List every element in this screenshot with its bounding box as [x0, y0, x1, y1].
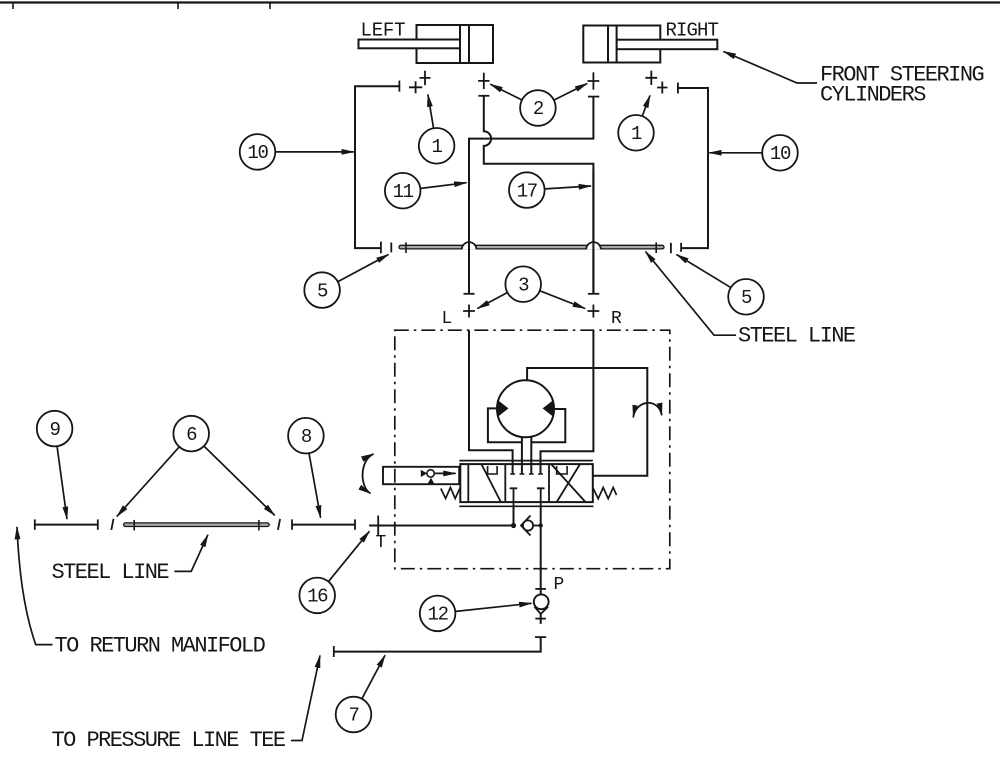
- svg-text:10: 10: [770, 143, 791, 165]
- balloon 6 arrows: [117, 447, 179, 516]
- check valve ball: [523, 520, 533, 530]
- wire: R-port line (hose 11) down and across H1: [469, 97, 593, 294]
- motor top line to right loop: [527, 368, 647, 476]
- balloon 1 right arrow: [642, 96, 650, 116]
- port R cross: [588, 305, 600, 318]
- hose 8 left tick: [291, 519, 293, 529]
- balloon 17 arrow: [545, 186, 591, 189]
- svg-text:5: 5: [317, 280, 328, 302]
- balloon 17: [509, 172, 545, 208]
- svg-text:TO RETURN MANIFOLD: TO RETURN MANIFOLD: [55, 634, 266, 659]
- svg-text:LEFT: LEFT: [361, 19, 406, 41]
- pilot arrow: [435, 472, 456, 474]
- motor circle: [497, 380, 554, 437]
- steel line lower: tube: [124, 523, 270, 527]
- check valve seat: [521, 516, 531, 536]
- port P cross: [535, 588, 546, 590]
- valve top plate line: [459, 460, 593, 462]
- hose 7 wire: [334, 637, 541, 652]
- motor case bracket left: [488, 408, 522, 442]
- fitting 16 T cross: [369, 516, 387, 536]
- svg-text:STEEL LINE: STEEL LINE: [52, 560, 170, 585]
- balloon 3: [505, 266, 541, 302]
- balloon 9: [37, 411, 73, 447]
- svg-text:RIGHT: RIGHT: [666, 20, 719, 42]
- balloon 10 left: [240, 134, 276, 170]
- junction dot P line: [539, 523, 543, 527]
- fitting 1 right: elbow cross b: [645, 71, 657, 85]
- balloon 5 right: [728, 279, 764, 315]
- balloon 7 arrow: [362, 655, 385, 698]
- steel line top: right end tick: [655, 242, 657, 253]
- svg-text:3: 3: [518, 274, 529, 296]
- quick disconnect circle: [534, 594, 549, 609]
- fitting 2 right cross: [588, 72, 600, 89]
- hose 9 wire: [35, 524, 98, 526]
- balloon 1 right: [618, 115, 654, 151]
- junction dot tank/T-stub: [511, 523, 516, 528]
- steel line right coupling tick: [670, 243, 672, 254]
- leader STEEL LINE left: [174, 535, 208, 572]
- valve center ports blocked feet: [510, 473, 543, 475]
- hose 17 top end tick: [588, 96, 599, 98]
- balloon 10 right: [762, 135, 798, 171]
- steering input shaft: [383, 467, 459, 484]
- hose 8 wire: [292, 524, 355, 526]
- wire: left riser through steel line to cap: [468, 146, 470, 294]
- valve bottom plate line: [459, 505, 593, 507]
- balloon 5 left: [304, 272, 340, 308]
- motor case bracket right: [531, 409, 565, 442]
- hose 9 left tick: [34, 519, 36, 529]
- hose 10 left: bottom end tick: [380, 242, 382, 254]
- hose 11 top end tick: [478, 95, 489, 97]
- hose 8 right tick: [354, 519, 356, 529]
- wire: check valve to P line: [533, 525, 541, 527]
- valve assembly boundary (dash-dot box): [395, 330, 670, 569]
- cap tick above L port: [464, 293, 475, 295]
- balloon 10 left arrow: [276, 151, 354, 153]
- cylinder LEFT piston: [460, 25, 469, 63]
- svg-text:TO PRESSURE LINE TEE: TO PRESSURE LINE TEE: [52, 728, 286, 753]
- valve divider 3: [548, 464, 550, 502]
- wire: L-port line (hose 17) down with hop over H1 then across H2: [484, 96, 594, 294]
- cylinder LEFT rod: [359, 40, 461, 49]
- steel line top: left end tick: [405, 242, 407, 253]
- steel line top: hop over right riser: [586, 242, 601, 249]
- svg-text:9: 9: [50, 419, 61, 441]
- balloon 12 arrow: [456, 603, 532, 611]
- svg-text:R: R: [611, 309, 622, 329]
- svg-text:11: 11: [393, 181, 414, 203]
- motor right flow triangle: [543, 400, 554, 418]
- pilot triangle: [421, 470, 427, 477]
- svg-text:L: L: [442, 309, 453, 329]
- border: title block tick marks: [13, 3, 270, 9]
- balloon 1 left: [419, 128, 455, 164]
- leader STEEL LINE right: [646, 252, 737, 336]
- balloon 5 left arrow: [338, 255, 388, 282]
- wire: disconnect stub lower: [540, 614, 542, 624]
- hose 9 right tick: [97, 519, 99, 529]
- wire: R riser inside box: [541, 330, 594, 474]
- cylinder RIGHT rod: [617, 40, 718, 50]
- leader TO RETURN MANIFOLD: [17, 527, 53, 645]
- motor stem right line: [530, 438, 532, 475]
- motor stem left line: [521, 438, 523, 475]
- port L cross: [463, 305, 475, 318]
- svg-text:1: 1: [432, 136, 443, 158]
- valve left envelope diagonal: [482, 465, 501, 502]
- leader TO PRESSURE LINE TEE: [291, 656, 320, 741]
- fitting 1 right: elbow cross a: [657, 82, 667, 94]
- hose 7 top end tick: [535, 636, 546, 638]
- steel line top: hop over left riser: [462, 242, 477, 249]
- pilot seat triangle: [427, 478, 434, 485]
- balloon 1 left arrow: [428, 95, 434, 128]
- fitting 1 left: elbow cross a: [409, 81, 422, 93]
- valve left envelope port notch: [488, 466, 498, 474]
- svg-text:STEEL LINE: STEEL LINE: [738, 324, 856, 349]
- cylinder LEFT barrel: [417, 25, 494, 63]
- rotation arrow right: [633, 403, 662, 417]
- svg-text:7: 7: [348, 705, 358, 727]
- svg-text:1: 1: [631, 123, 642, 145]
- steel line lower: left slanted tick: [111, 519, 113, 530]
- svg-text:6: 6: [186, 424, 197, 446]
- svg-text:10: 10: [247, 142, 268, 164]
- hose 10 right: loop wire: [678, 88, 708, 248]
- valve right envelope port notch: [557, 466, 568, 474]
- balloon 16 arrow: [329, 531, 370, 581]
- valve right envelope X diagonal 1: [552, 465, 586, 502]
- svg-text:T: T: [376, 533, 387, 553]
- balloon 3 arrows: [478, 293, 508, 309]
- valve right envelope X diagonal 2: [557, 465, 580, 502]
- svg-text:2: 2: [533, 98, 544, 120]
- svg-text:16: 16: [307, 586, 328, 608]
- rotation arrow steering: [363, 454, 374, 494]
- balloon 11 arrow: [421, 183, 467, 189]
- balloon 8 arrow: [309, 454, 321, 518]
- svg-text:8: 8: [301, 426, 312, 448]
- fitting 2 left cross: [478, 73, 489, 89]
- balloon 7: [336, 697, 372, 733]
- port P lower cross: [535, 618, 546, 620]
- valve bottom port P (pressure): [537, 488, 545, 506]
- balloon 2: [520, 90, 556, 126]
- valve divider 2: [504, 464, 506, 502]
- cylinder RIGHT piston: [608, 26, 617, 63]
- fitting 1 left: elbow cross b: [420, 71, 431, 85]
- balloon 12: [420, 596, 456, 632]
- svg-text:17: 17: [517, 180, 537, 202]
- steel line top: tube: [399, 245, 664, 249]
- hose 10 right: top end tick: [677, 83, 679, 94]
- balloon 16: [299, 578, 335, 614]
- balloon 2 arrows: [490, 84, 521, 100]
- svg-text:5: 5: [741, 287, 752, 309]
- steel line lower: right slanted tick: [278, 519, 280, 530]
- hose 10 left: loop wire: [355, 86, 399, 248]
- cylinder RIGHT barrel: [583, 26, 660, 63]
- valve body: [460, 464, 593, 502]
- balloon 8: [288, 418, 324, 454]
- wire: tank line from T fitting to junction: [369, 525, 513, 527]
- pilot circle: [427, 470, 434, 477]
- motor left flow triangle: [497, 400, 508, 418]
- steel line lower: right cross tick: [258, 520, 260, 531]
- balloon 5 right arrow: [677, 255, 731, 288]
- border: top sheet edge line: [0, 1, 1000, 3]
- wire: right riser through steel line to cap: [592, 169, 594, 294]
- svg-text:12: 12: [427, 604, 448, 626]
- cap tick above R port: [588, 293, 599, 295]
- valve spring left: [441, 488, 460, 499]
- wire: L riser inside box: [469, 330, 513, 474]
- balloon 11: [385, 173, 421, 209]
- hose 10 right: bottom end tick: [680, 243, 682, 252]
- quick disconnect seat V: [535, 607, 549, 614]
- steel line lower: left cross tick: [133, 520, 135, 531]
- leader to right cylinder rod: [724, 52, 818, 84]
- valve spring right: [593, 488, 616, 499]
- balloon 9 arrow: [57, 447, 67, 519]
- hose 10 left: top end tick: [398, 81, 400, 92]
- hose 7 left end tick: [333, 646, 335, 657]
- svg-text:P: P: [554, 575, 565, 595]
- wire: T stub from valve to tank line: [513, 506, 515, 525]
- wire: P line from valve through box: [540, 506, 542, 594]
- svg-text:CYLINDERS: CYLINDERS: [820, 83, 926, 108]
- valve bottom port T (tank): [510, 488, 518, 506]
- balloon 6: [173, 416, 209, 452]
- steel line left coupling tick: [390, 243, 392, 253]
- valve divider 1: [467, 464, 469, 502]
- balloon 10 right arrow: [709, 152, 761, 154]
